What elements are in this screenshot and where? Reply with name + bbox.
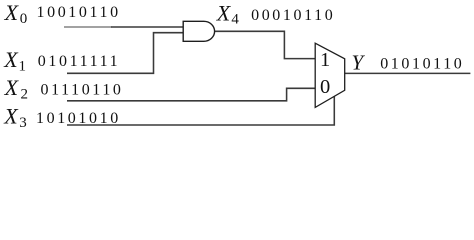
svg-text:01011111: 01011111 bbox=[38, 53, 120, 70]
svg-text:X: X bbox=[3, 47, 19, 72]
svg-text:0: 0 bbox=[320, 76, 330, 98]
svg-text:2: 2 bbox=[21, 87, 29, 103]
svg-text:3: 3 bbox=[19, 115, 27, 131]
svg-text:X: X bbox=[216, 0, 232, 25]
svg-text:10101010: 10101010 bbox=[36, 110, 121, 127]
svg-text:X: X bbox=[4, 75, 20, 100]
svg-text:00010110: 00010110 bbox=[251, 7, 335, 24]
svg-text:01010110: 01010110 bbox=[380, 56, 464, 73]
svg-text:1: 1 bbox=[320, 49, 330, 71]
svg-text:1: 1 bbox=[19, 58, 27, 74]
svg-text:X: X bbox=[4, 0, 20, 25]
svg-text:01110110: 01110110 bbox=[41, 81, 124, 98]
svg-text:0: 0 bbox=[20, 11, 28, 27]
svg-text:10010110: 10010110 bbox=[37, 4, 121, 21]
svg-text:X: X bbox=[3, 103, 19, 128]
svg-text:4: 4 bbox=[231, 11, 239, 27]
